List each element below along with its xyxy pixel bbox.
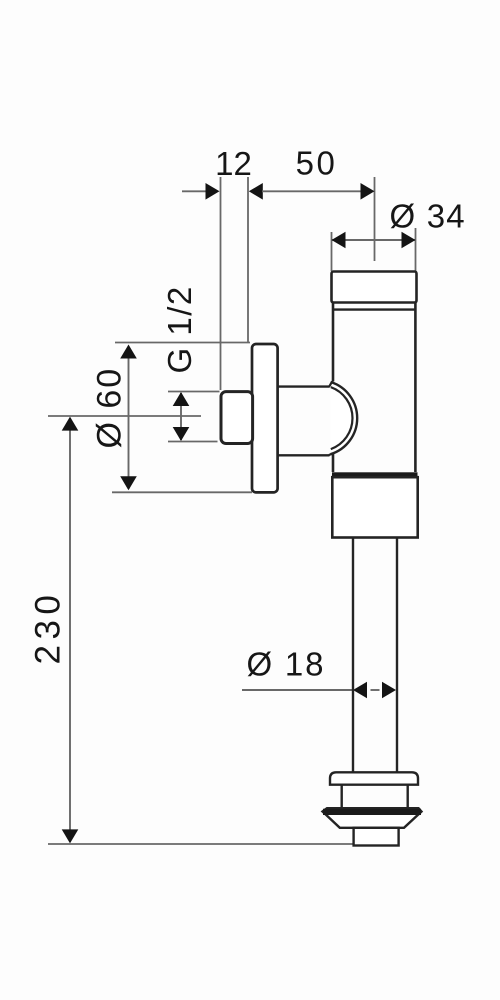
inlet pipe top line	[278, 385, 330, 387]
outlet pipe left wall	[352, 538, 354, 773]
valve top cap	[332, 272, 417, 303]
body separator thick line	[332, 472, 418, 477]
arrow dia34 left-pointing	[332, 232, 346, 249]
extension line 230 bottom	[48, 843, 353, 845]
arrow G1/2 down-pointing	[173, 427, 190, 441]
svg-text:230: 230	[29, 590, 68, 665]
arrow 50 right-pointing	[361, 183, 375, 200]
extension line dia34 left	[331, 232, 333, 271]
svg-text:Ø 34: Ø 34	[390, 198, 466, 235]
extension line G1/2 top	[168, 391, 220, 393]
bottom neck left	[341, 785, 343, 808]
valve body left edge upper	[332, 303, 335, 382]
arrow 50 left-pointing	[249, 183, 263, 200]
arrow dia60 down-pointing	[120, 476, 137, 490]
arrow dia34 right-pointing	[402, 232, 416, 249]
arrow 230 down-pointing	[62, 829, 79, 843]
inlet dome outer line	[331, 382, 358, 454]
dimension line dia60	[128, 346, 130, 489]
valve body right edge	[414, 303, 417, 472]
dimension line 50	[262, 190, 362, 192]
valve lower body	[332, 477, 417, 537]
extension line G1/2 bottom	[168, 441, 218, 443]
bottom disc	[330, 772, 418, 784]
inlet bottom chamfer	[329, 454, 332, 455]
arrow 12 right-pointing	[206, 183, 220, 200]
G1/2 connector nut	[221, 392, 253, 444]
arrow 230 up-pointing	[62, 417, 79, 431]
arrow dia18 left-pointing	[353, 682, 367, 699]
inlet pipe bottom line	[278, 454, 330, 456]
dimension line G1/2	[180, 393, 182, 440]
arrow G1/2 up-pointing	[173, 392, 190, 406]
svg-text:G 1/2: G 1/2	[161, 285, 198, 373]
arrow dia60 up-pointing	[120, 345, 137, 359]
arrow dia18 right-pointing	[382, 682, 396, 699]
dimension line 230	[69, 418, 71, 842]
dimension line dia18 leader	[242, 689, 352, 691]
extension line dia60 top	[115, 342, 250, 344]
extension line dia60 bottom	[112, 491, 252, 493]
bottom flare	[323, 808, 422, 828]
valve body left edge lower	[332, 454, 335, 473]
svg-text:Ø 60: Ø 60	[91, 367, 129, 449]
extension line dia34 right	[415, 228, 417, 271]
svg-text:50: 50	[296, 145, 338, 182]
dimension line dia34	[332, 239, 416, 241]
valve collar line	[333, 308, 415, 310]
dimension line 12	[182, 190, 206, 192]
inlet dome inner line	[331, 387, 353, 449]
outlet pipe right wall	[396, 538, 398, 773]
dimension line dia18 middle segment	[371, 689, 380, 691]
centerline valve axis	[374, 177, 376, 261]
bottom flare dark band	[323, 809, 421, 815]
wall flange	[252, 344, 278, 492]
extension line 12-left	[220, 177, 222, 390]
svg-text:12: 12	[215, 145, 252, 182]
svg-text:Ø 18: Ø 18	[247, 646, 326, 683]
bottom stub	[354, 828, 399, 846]
extension line 230 top	[48, 415, 201, 417]
bottom neck right	[407, 785, 409, 808]
inlet top chamfer	[329, 382, 332, 387]
extension line 12-right (wall line)	[247, 177, 249, 343]
